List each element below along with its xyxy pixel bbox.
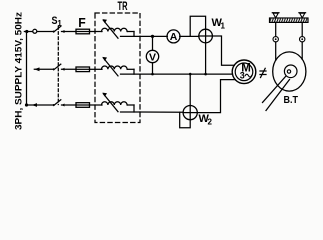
wire run2 variac to motor <box>140 73 233 75</box>
transformer box TR <box>95 13 140 123</box>
wire L2 switch to fuse <box>62 68 77 70</box>
wire L3 switch to fuse <box>62 104 77 106</box>
wire V lower lead <box>152 63 154 74</box>
node W2 tap on run2 <box>189 73 192 76</box>
wire V upper lead <box>152 36 154 50</box>
wire phase L3 input <box>27 104 54 106</box>
voltmeter V <box>146 50 158 63</box>
wattmeter W1 <box>199 29 213 43</box>
fuse F3 <box>76 103 90 108</box>
svg-text:F: F <box>78 15 86 30</box>
fuse F1 <box>76 29 90 34</box>
wire W1 output to motor T1 <box>212 36 234 65</box>
brake support bar <box>270 18 309 22</box>
svg-text:V: V <box>149 51 156 63</box>
switch S1 pole 2 <box>53 64 65 71</box>
rope left upper <box>275 22 277 36</box>
node phase1 bus junction <box>25 30 28 33</box>
node W1 tap on run2 <box>204 73 207 76</box>
svg-text:1: 1 <box>221 22 226 31</box>
rope right lower <box>301 42 303 59</box>
switch S1 pole 1 <box>53 26 65 33</box>
wire run1 ammeter to W1 <box>180 35 199 37</box>
wire phase L2 input <box>34 68 53 70</box>
belt line upper <box>263 76 287 103</box>
svg-text:2: 2 <box>208 118 213 127</box>
node L1 open terminal <box>33 29 37 33</box>
belt line lower <box>266 80 290 111</box>
shaft coupling <box>260 68 266 77</box>
rope right upper <box>301 22 303 36</box>
motor M <box>232 60 256 84</box>
node V tap on run1 <box>151 35 154 38</box>
wire L1 fuse to variac <box>90 31 103 33</box>
switch S1 linkage <box>57 27 59 105</box>
brake hook left <box>272 13 279 18</box>
supply bus vertical <box>26 32 28 106</box>
pulley boss <box>284 65 297 78</box>
variac TR phase 2 <box>102 57 141 76</box>
node L3 arrow <box>32 103 37 107</box>
spring balance S1 left <box>273 37 278 42</box>
wire W1 potential lead to run2 <box>205 43 207 74</box>
wire W2 output to motor T3 <box>197 80 235 113</box>
variac TR phase 3 <box>102 93 141 112</box>
wire W2 potential lead to run2 <box>189 74 191 105</box>
svg-text:B.T: B.T <box>284 95 299 106</box>
wire run1 variac to ammeter <box>140 35 167 37</box>
variac TR phase 1 <box>102 19 141 38</box>
svg-text:1: 1 <box>57 19 62 28</box>
wire L3 fuse to variac <box>90 104 103 106</box>
svg-text:3PH, SUPPLY 415V, 50Hz: 3PH, SUPPLY 415V, 50Hz <box>14 11 24 130</box>
svg-text:A: A <box>170 31 178 43</box>
svg-text:3: 3 <box>240 70 245 80</box>
switch S1 pole 3 <box>53 100 65 107</box>
node V tap on run2 <box>151 73 154 76</box>
wattmeter W2 <box>183 106 197 120</box>
wire phase L1 input <box>24 31 53 33</box>
svg-text:TR: TR <box>118 1 128 13</box>
rope left lower <box>275 42 277 60</box>
pulley hub <box>287 70 290 73</box>
wattmeter W2 current loop <box>180 112 191 128</box>
node L2 arrow <box>34 67 39 71</box>
wattmeter W1 current loop <box>190 16 205 36</box>
fuse F2 <box>76 67 90 72</box>
brake hook right <box>299 13 306 18</box>
brake drum pulley <box>273 52 306 91</box>
ammeter A <box>167 30 180 43</box>
wire run3 variac to W2 <box>140 111 183 113</box>
spring balance S2 right <box>300 37 305 42</box>
wire L2 fuse to variac <box>90 68 103 70</box>
wire L1 switch to fuse <box>62 31 77 33</box>
node phase3 bus junction <box>25 103 28 106</box>
